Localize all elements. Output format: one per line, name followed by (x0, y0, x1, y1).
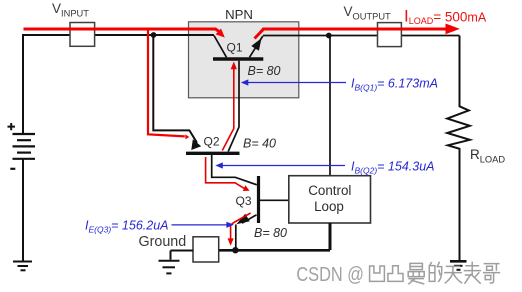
svg-text:Q1: Q1 (227, 41, 243, 55)
V_OUTPUT sense box (378, 23, 402, 47)
Q3 base bar (257, 176, 260, 223)
red arrowhead into Q3 (243, 185, 250, 191)
svg-text:Q3: Q3 (236, 194, 252, 208)
wire ground box left (171, 251, 194, 260)
Q1 emitter arrowhead (251, 38, 261, 51)
wire output rail (black) (263, 35, 460, 37)
blue annotation line I_B(Q2) (221, 165, 346, 167)
ground sense box (193, 237, 219, 262)
glyph de (429, 262, 441, 281)
red current path: Q1 emitter to output (255, 29, 448, 39)
ground (left rail) (13, 262, 32, 271)
svg-text:Control: Control (308, 183, 351, 198)
svg-text:IE(Q3)= 156.2uA: IE(Q3)= 156.2uA (85, 219, 169, 235)
transistor Q1 (213, 36, 263, 60)
NPN pass-device box (189, 22, 299, 98)
red arrowhead I_B(Q1) (231, 62, 237, 70)
red arrowhead into Q2 left (185, 134, 189, 139)
transistor Q2 (186, 152, 240, 155)
wire junction to Q2 (153, 35, 197, 143)
glyph tu (388, 266, 403, 282)
svg-text:RLOAD: RLOAD (470, 147, 505, 165)
red arrowhead to ground (228, 238, 234, 245)
battery minus label (10, 168, 15, 170)
wire output junction to control loop (329, 36, 331, 176)
svg-text:IB(Q2)= 154.3uA: IB(Q2)= 154.3uA (351, 159, 435, 175)
battery plus label (8, 123, 16, 130)
red current path: input rail (24, 29, 221, 33)
wire Q3 emitter to ground rail (235, 225, 237, 251)
Q1 collector (214, 36, 227, 58)
svg-text:Q2: Q2 (204, 135, 220, 149)
glyph biao (464, 262, 480, 283)
Q1 emitter (250, 36, 263, 57)
glyph tian (445, 266, 462, 282)
watermark chinese glyphs drawn as strokes (370, 262, 500, 283)
wire control loop to ground rail (329, 223, 332, 250)
node ground junction dot (232, 247, 238, 253)
Q2 base bar (186, 152, 240, 155)
battery V_INPUT source (13, 134, 36, 159)
svg-text:B= 80: B= 80 (254, 226, 287, 240)
ground symbol (ground box) (159, 261, 180, 274)
red current path: drop to Q2 (148, 29, 185, 136)
ground (R_LOAD) (450, 261, 467, 270)
svg-text:VOUTPUT: VOUTPUT (344, 4, 392, 22)
svg-text:B= 80: B= 80 (248, 64, 281, 78)
blue annotation line I_B(Q1) (246, 82, 346, 84)
wire Q2 base to Q3 (212, 155, 257, 185)
V_INPUT sense box (70, 23, 95, 47)
glyph man (408, 263, 424, 283)
arrowhead into Q2 (191, 139, 201, 150)
svg-text:Ground: Ground (139, 234, 187, 250)
red current path: I_B(Q1) up into Q1 base (222, 66, 234, 151)
node output junction dot (326, 33, 332, 39)
Q1 base bar (213, 57, 263, 60)
red current path: Q2 to Q3 (206, 157, 245, 189)
red arrowhead into Q1 collector (216, 29, 225, 38)
blue annotation line I_E(Q3) (172, 224, 229, 226)
Q3 emitter (242, 215, 257, 223)
svg-text:B= 40: B= 40 (243, 137, 276, 151)
wire Q1 base to Q2 (228, 61, 239, 152)
resistor R_LOAD (447, 36, 470, 261)
wire battery to ground (22, 159, 24, 262)
svg-text:NPN: NPN (225, 7, 253, 22)
svg-text:ILOAD= 500mA: ILOAD= 500mA (404, 7, 487, 27)
Q3 collector (260, 199, 289, 201)
glyph ge (484, 264, 500, 283)
control loop block (289, 176, 371, 223)
wire input rail (black) (23, 35, 214, 134)
red current path: Q3 emitter down (231, 213, 251, 241)
Q3 emitter arrowhead (236, 214, 249, 225)
glyph ao (370, 266, 385, 281)
node A junction dot (input rail) (151, 32, 157, 38)
svg-text:CSDN @: CSDN @ (296, 262, 364, 285)
transistor Q3 (236, 176, 288, 224)
svg-text:Loop: Loop (314, 199, 344, 214)
red arrowhead I_LOAD (446, 24, 460, 35)
svg-text:IB(Q1)= 6.173mA: IB(Q1)= 6.173mA (351, 77, 438, 93)
wire ground rail (219, 249, 330, 252)
svg-text:VINPUT: VINPUT (52, 1, 89, 19)
